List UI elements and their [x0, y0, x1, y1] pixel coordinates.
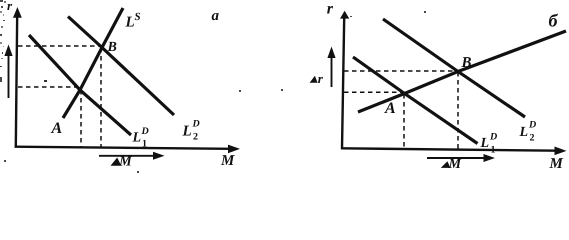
svg-text:2: 2: [530, 133, 535, 144]
svg-text:B: B: [107, 40, 117, 55]
svg-text:B: B: [461, 55, 472, 71]
x-axis right arrowhead: [555, 147, 567, 156]
svg-text:L: L: [519, 125, 529, 140]
svg-text:S: S: [135, 11, 141, 23]
dashed vertical from A right: [403, 94, 405, 149]
dashed horizontal at B level right: [344, 70, 457, 72]
svg-text:L: L: [480, 136, 490, 151]
dashed horizontal at B level left: [18, 45, 100, 47]
dashed vertical from B left: [100, 48, 102, 148]
dashed vertical from A left: [80, 90, 82, 148]
y-axis left arrowhead: [13, 7, 22, 18]
svg-text:D: D: [528, 120, 536, 131]
svg-text:L: L: [182, 124, 192, 140]
demand curve LD1 left: [29, 35, 131, 135]
supply curve LS left: [63, 8, 123, 118]
dashed horizontal at A level right: [344, 91, 404, 93]
y-axis right: [342, 18, 344, 149]
svg-text:L: L: [132, 131, 142, 146]
delta-M label right: solid triangle delta: [441, 161, 451, 168]
svg-text:1: 1: [491, 145, 496, 156]
svg-text:M: M: [448, 157, 462, 172]
x-axis left arrowhead: [228, 145, 240, 154]
svg-text:1: 1: [142, 139, 147, 150]
svg-text:а: а: [212, 8, 220, 24]
x-axis right: [341, 148, 558, 150]
svg-text:D: D: [141, 126, 149, 137]
svg-text:2: 2: [193, 132, 198, 143]
demand curve LD2 right: [383, 19, 525, 117]
svg-text:A: A: [51, 120, 63, 137]
delta-r arrow left: [8, 52, 10, 98]
scan speckles: [0, 0, 426, 173]
supply curve right (flat positive slope): [358, 31, 566, 112]
y-axis left: [16, 14, 17, 147]
svg-text:D: D: [192, 119, 200, 130]
svg-text:D: D: [489, 132, 497, 143]
demand curve LD1 right: [353, 57, 478, 144]
delta-r arrow right: [331, 54, 333, 87]
svg-text:A: A: [384, 100, 396, 117]
delta-M arrow right: [427, 157, 485, 159]
x-axis left: [15, 147, 231, 149]
dashed horizontal at A level left: [18, 86, 79, 88]
dashed vertical from B right: [457, 72, 459, 149]
svg-text:б: б: [549, 11, 559, 31]
svg-text:M: M: [220, 153, 235, 169]
delta-r label right: solid triangle delta + r: [310, 76, 318, 83]
demand curve LD2 left: [68, 17, 174, 116]
delta-M label left: solid triangle delta: [111, 158, 122, 166]
svg-text:L: L: [125, 15, 135, 31]
svg-text:M: M: [118, 155, 132, 170]
y-axis right arrowhead: [340, 11, 349, 19]
delta-M arrow left: [99, 155, 155, 157]
svg-text:M: M: [549, 156, 564, 172]
svg-text:r: r: [327, 0, 334, 17]
